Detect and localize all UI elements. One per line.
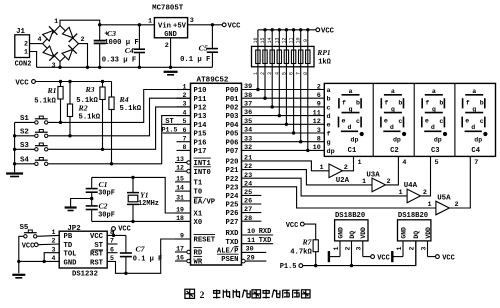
svg-text:S5: S5 — [20, 224, 29, 232]
svg-text:VCC: VCC — [286, 222, 299, 230]
svg-text:31: 31 — [176, 194, 184, 201]
svg-text:X0: X0 — [194, 219, 203, 227]
chip right port labels P00-P07 — [226, 87, 240, 156]
svg-text:RP1: RP1 — [316, 48, 330, 57]
wire bridge diamond — [37, 18, 84, 70]
svg-text:9: 9 — [303, 39, 309, 42]
svg-text:b: b — [356, 99, 360, 106]
resistor R1 — [34, 82, 63, 123]
resistor network RP1 — [252, 46, 332, 66]
svg-text:c: c — [480, 118, 484, 125]
svg-text:CON2: CON2 — [15, 61, 32, 69]
svg-text:P27: P27 — [226, 219, 239, 227]
svg-text:4: 4 — [183, 109, 187, 116]
wire DS1232 RST to AT89C52 RESET — [107, 239, 190, 275]
wire S2 to P11 — [48, 98, 190, 137]
wire net P1.5 rail — [303, 241, 416, 267]
svg-text:P23: P23 — [226, 184, 239, 192]
svg-text:2: 2 — [52, 238, 56, 245]
capacitor C7 — [120, 235, 162, 273]
resistor R3 — [76, 82, 105, 150]
svg-text:11: 11 — [247, 237, 255, 245]
ground (crystal) — [65, 208, 77, 211]
diode D4 (bottom-right) — [61, 45, 77, 61]
wire VCC to TD — [38, 243, 59, 246]
svg-text:TOL: TOL — [64, 251, 77, 259]
chip lower-left pin stubs — [175, 156, 191, 263]
svg-text:28: 28 — [244, 215, 252, 223]
regulator U6 MC7805T — [148, 5, 194, 50]
svg-text:13: 13 — [274, 37, 280, 43]
svg-text:1: 1 — [253, 72, 259, 75]
svg-text:C3: C3 — [431, 147, 440, 155]
svg-text:16: 16 — [176, 254, 184, 261]
svg-text:DQ: DQ — [413, 231, 420, 239]
svg-text:RST: RST — [90, 259, 104, 267]
svg-text:3: 3 — [356, 246, 363, 250]
VCC terminal (DS1232) — [112, 226, 131, 234]
chip right control labels — [217, 159, 239, 265]
svg-text:U5A: U5A — [437, 195, 451, 203]
svg-text:4.7kΩ: 4.7kΩ — [290, 248, 312, 256]
svg-text:VCC: VCC — [377, 254, 390, 262]
switch S3 — [20, 142, 48, 151]
display segment pin labels a-dp — [327, 87, 335, 156]
svg-text:11: 11 — [313, 109, 321, 117]
svg-text:X1: X1 — [194, 211, 203, 219]
svg-text:0.1 μ F: 0.1 μ F — [133, 255, 162, 263]
svg-text:9: 9 — [317, 101, 321, 109]
svg-text:P16: P16 — [194, 139, 207, 147]
svg-text:C2: C2 — [390, 147, 399, 155]
svg-text:P13: P13 — [194, 113, 207, 121]
capacitor C2 — [86, 199, 115, 222]
pin 11 TXD stub — [242, 237, 274, 245]
display box (C1-C4) — [324, 83, 495, 156]
svg-text:0.1 μ F: 0.1 μ F — [180, 56, 210, 64]
watchdog JP2 DS1232 — [52, 225, 114, 279]
pin 10 RXD stub — [242, 228, 274, 236]
svg-text:c: c — [398, 118, 402, 125]
switch S1 — [20, 115, 48, 124]
svg-text:12: 12 — [281, 37, 287, 43]
VCC terminal (R7) — [286, 222, 305, 230]
svg-text:1: 1 — [24, 49, 28, 56]
svg-text:C1: C1 — [98, 180, 107, 189]
svg-text:2: 2 — [317, 83, 321, 91]
svg-text:GND: GND — [337, 227, 344, 239]
wire S1 to P10 — [48, 90, 190, 125]
svg-text:15: 15 — [176, 175, 184, 182]
svg-text:30: 30 — [246, 246, 254, 254]
svg-text:1: 1 — [396, 246, 403, 250]
svg-text:3: 3 — [51, 62, 55, 70]
svg-text:d: d — [471, 124, 475, 131]
svg-text:c: c — [439, 118, 443, 125]
svg-text:RXD: RXD — [226, 230, 240, 238]
svg-text:C2: C2 — [98, 201, 107, 210]
svg-text:30pF: 30pF — [98, 211, 115, 219]
svg-text:10: 10 — [247, 228, 255, 236]
svg-text:Vin: Vin — [158, 22, 171, 30]
svg-text:f: f — [384, 99, 388, 106]
svg-text:b: b — [327, 96, 331, 104]
svg-text:d: d — [327, 113, 331, 121]
svg-text:c: c — [327, 104, 331, 112]
svg-text:DS18B20: DS18B20 — [335, 212, 365, 220]
svg-text:2: 2 — [344, 246, 351, 250]
svg-text:6: 6 — [289, 72, 295, 75]
svg-text:TD: TD — [64, 242, 73, 250]
svg-text:U2A: U2A — [336, 177, 350, 185]
svg-text:2: 2 — [165, 42, 169, 50]
svg-text:8: 8 — [183, 144, 187, 151]
svg-text:VCC: VCC — [118, 226, 131, 234]
svg-text:VDD: VDD — [425, 227, 432, 239]
svg-text:2: 2 — [260, 72, 266, 75]
svg-text:f: f — [342, 99, 346, 106]
pin 30 ALE stub — [242, 246, 267, 254]
svg-text:TXD: TXD — [226, 239, 240, 247]
svg-text:P12: P12 — [194, 105, 207, 113]
svg-text:dp: dp — [393, 137, 401, 144]
svg-text:13: 13 — [176, 156, 184, 163]
wire S5 to ground — [17, 236, 24, 273]
svg-text:2: 2 — [409, 246, 416, 250]
svg-text:4: 4 — [274, 72, 280, 75]
svg-text:C7: C7 — [135, 244, 145, 253]
svg-text:e: e — [465, 118, 469, 125]
svg-text:f: f — [327, 130, 331, 138]
wire P23 to U5A — [242, 187, 436, 208]
ground (keys) — [6, 174, 23, 177]
wire regulator GND pin to ground — [170, 38, 172, 68]
svg-text:3: 3 — [420, 246, 427, 250]
svg-text:b: b — [480, 99, 484, 106]
svg-text:15: 15 — [260, 37, 266, 43]
svg-text:EA/VP: EA/VP — [194, 199, 216, 207]
svg-text:1: 1 — [362, 178, 366, 186]
net label ST (pin5) — [163, 118, 177, 126]
7-segment digit C2 — [381, 88, 406, 155]
resistor R2 — [67, 82, 100, 136]
svg-text:f: f — [466, 99, 470, 106]
svg-text:1: 1 — [333, 246, 340, 250]
svg-text:R4: R4 — [119, 95, 129, 104]
svg-text:27: 27 — [244, 206, 252, 214]
svg-text:b: b — [439, 99, 443, 106]
VCC terminal (RP1) — [316, 28, 335, 36]
svg-text:4: 4 — [52, 255, 56, 262]
VCC terminal (keys pull-up rail) — [15, 80, 35, 88]
svg-text:1: 1 — [54, 18, 58, 26]
VCC terminal (DS1232 TD) — [22, 242, 38, 250]
wire crystal top to X1 — [92, 176, 191, 213]
svg-text:P02: P02 — [226, 105, 239, 113]
wire C1-C2 junction to ground — [71, 197, 94, 207]
svg-text:VCC: VCC — [321, 28, 335, 36]
pin 29 PSEN stub — [242, 254, 267, 263]
svg-text:5: 5 — [281, 72, 287, 75]
buffer U4A — [398, 182, 426, 203]
svg-text:T0: T0 — [194, 189, 203, 197]
connector J1 — [15, 28, 32, 69]
svg-text:f: f — [425, 99, 429, 106]
svg-text:17: 17 — [176, 245, 184, 252]
svg-text:GND: GND — [400, 227, 407, 239]
chip left control labels — [194, 158, 216, 267]
svg-text:14: 14 — [267, 37, 273, 43]
wire U3A output to C2 — [385, 165, 398, 185]
crystal Y1 — [127, 177, 159, 221]
svg-text:a: a — [327, 87, 331, 95]
svg-text:T1: T1 — [194, 180, 203, 188]
temperature sensor U8 DS18B20 #2 — [392, 212, 435, 265]
svg-text:P01: P01 — [226, 96, 240, 104]
svg-text:J1: J1 — [16, 28, 25, 36]
svg-text:6: 6 — [183, 127, 187, 134]
wire P20 to U2A — [242, 161, 330, 171]
VCC terminal (DS18B20 #1) — [371, 254, 390, 262]
svg-text:ST: ST — [165, 118, 173, 126]
wire key ground rail — [13, 122, 35, 172]
svg-text:C4: C4 — [125, 46, 134, 55]
svg-text:12MHz: 12MHz — [138, 200, 159, 208]
svg-text:19: 19 — [176, 206, 184, 213]
svg-text:P00: P00 — [226, 87, 239, 95]
resistor R7 — [290, 224, 318, 266]
svg-text:d: d — [431, 124, 435, 131]
svg-text:C5: C5 — [199, 44, 208, 53]
svg-text:11: 11 — [289, 37, 295, 43]
buffer U5A — [427, 195, 458, 215]
temperature sensor U7 DS18B20 #1 — [329, 212, 371, 265]
svg-text:P03: P03 — [226, 113, 239, 121]
svg-text:8: 8 — [303, 72, 309, 75]
wire U5A output to C4 — [449, 165, 470, 208]
svg-text:2: 2 — [183, 92, 187, 99]
svg-text:3: 3 — [190, 17, 194, 25]
capacitor C4 — [102, 25, 145, 68]
svg-text:P24: P24 — [226, 193, 240, 201]
svg-text:8: 8 — [317, 136, 321, 144]
svg-text:P05: P05 — [226, 131, 239, 139]
svg-text:3: 3 — [52, 246, 56, 253]
display pin numbers — [313, 83, 321, 152]
svg-text:1: 1 — [183, 83, 187, 90]
wire S4 to P13 — [48, 116, 190, 166]
pin stub RST6 — [107, 252, 117, 254]
chip pins 21-28 stubs — [242, 155, 262, 223]
chip pin numbers 39-32 — [244, 83, 252, 152]
svg-text:P04: P04 — [226, 122, 240, 130]
svg-text:VCC: VCC — [90, 233, 104, 241]
svg-text:VCC: VCC — [15, 80, 29, 88]
diode D1 (top-left) — [42, 26, 58, 42]
svg-text:1: 1 — [427, 201, 431, 209]
svg-text:1: 1 — [148, 18, 152, 26]
svg-text:GND: GND — [64, 259, 78, 267]
svg-text:3: 3 — [267, 72, 273, 75]
svg-text:MC7805T: MC7805T — [152, 5, 184, 13]
svg-text:R3: R3 — [84, 85, 94, 94]
svg-text:14: 14 — [176, 185, 184, 192]
VCC terminal (DS18B20 #2) — [436, 254, 455, 262]
capacitor C5 — [180, 25, 218, 68]
svg-text:2: 2 — [24, 41, 28, 48]
svg-text:1: 1 — [52, 229, 56, 236]
svg-text:30pF: 30pF — [98, 190, 115, 198]
switch S2 — [20, 129, 48, 138]
switch S5 — [20, 224, 37, 238]
net label P1.5 (pin6) — [162, 127, 178, 134]
svg-text:3: 3 — [183, 101, 187, 108]
svg-text:P20: P20 — [226, 159, 239, 167]
pin stub ST — [107, 243, 117, 245]
switch S4 — [20, 157, 48, 166]
svg-text:7: 7 — [183, 136, 187, 143]
caption: Figure 2 MCU peripheral circuit schematic — [185, 289, 310, 301]
svg-text:5: 5 — [435, 159, 439, 167]
wire J1 pin2 to bridge node 4 — [30, 43, 43, 45]
wire DC rail to Vin — [98, 23, 154, 26]
svg-text:P15: P15 — [194, 131, 207, 139]
wire bridge node1 to rectifier output rail — [60, 20, 100, 25]
svg-text:DQ: DQ — [349, 231, 356, 239]
wire bridge node3 to bottom rail — [59, 62, 61, 68]
svg-text:5.1kΩ: 5.1kΩ — [34, 98, 56, 106]
svg-text:dp: dp — [327, 148, 335, 156]
svg-text:7: 7 — [474, 159, 478, 167]
svg-text:29: 29 — [247, 254, 255, 262]
buffer U2A — [319, 164, 349, 185]
svg-text:d: d — [348, 124, 352, 131]
svg-text:P11: P11 — [194, 96, 208, 104]
svg-text:P07: P07 — [226, 148, 239, 156]
svg-text:5: 5 — [183, 118, 187, 125]
svg-text:1: 1 — [398, 189, 402, 197]
diode D3 (bottom-left) — [42, 45, 58, 61]
svg-text:18: 18 — [176, 215, 184, 222]
chip pins 1-8 stubs — [177, 83, 191, 151]
svg-text:4: 4 — [37, 36, 41, 44]
wire P21 to U3A — [242, 170, 373, 185]
wire S3 to P12 — [48, 107, 190, 151]
wire J1 pin1 to ground rail — [30, 52, 37, 68]
svg-text:PB: PB — [64, 233, 73, 241]
diode D2 (top-right) — [62, 26, 78, 42]
7-segment digit C3 — [422, 88, 447, 155]
chip left port labels P10-P17 — [194, 87, 208, 156]
svg-text:e: e — [384, 118, 388, 125]
svg-text:25: 25 — [244, 189, 252, 197]
svg-text:c: c — [356, 118, 360, 125]
wire VCC pull-up rail — [35, 80, 111, 83]
svg-text:P1.5: P1.5 — [280, 263, 297, 271]
svg-text:Y1: Y1 — [140, 190, 149, 199]
display common pin stubs — [354, 156, 479, 167]
svg-text:TXD: TXD — [259, 237, 272, 245]
svg-text:WR: WR — [194, 259, 203, 267]
capacitor C1 — [86, 177, 115, 198]
svg-text:C3: C3 — [107, 29, 116, 38]
svg-text:ST: ST — [94, 242, 103, 250]
svg-text:VCC: VCC — [442, 254, 455, 262]
svg-text:PSEN: PSEN — [221, 256, 238, 264]
svg-text:+5V: +5V — [173, 22, 187, 30]
VCC terminal (regulator output) — [222, 23, 241, 31]
svg-text:DS1232: DS1232 — [72, 270, 98, 278]
svg-text:P22: P22 — [226, 176, 239, 184]
svg-text:5.1kΩ: 5.1kΩ — [120, 105, 142, 113]
RP1 pin numbers (rotated) — [253, 37, 309, 75]
wire bridge node2 down to bottom rail — [79, 44, 88, 68]
wire bottom ground rail — [37, 66, 213, 69]
svg-text:e: e — [425, 118, 429, 125]
svg-text:C4: C4 — [471, 147, 480, 155]
svg-text:P06: P06 — [226, 139, 239, 147]
svg-text:5.1kΩ: 5.1kΩ — [76, 97, 98, 105]
svg-text:DS18B20: DS18B20 — [398, 212, 428, 220]
wire RP1 VCC bus — [258, 28, 316, 31]
svg-text:R7: R7 — [301, 237, 312, 246]
svg-text:b: b — [398, 99, 402, 106]
svg-text:4: 4 — [402, 159, 406, 167]
wire crystal bottom to X0 — [92, 220, 191, 223]
svg-text:10: 10 — [296, 37, 302, 43]
svg-text:5.1kΩ: 5.1kΩ — [79, 114, 101, 122]
resistor R4 — [109, 82, 142, 164]
capacitor C3 — [94, 25, 139, 68]
svg-text:RST: RST — [90, 251, 104, 259]
svg-text:7: 7 — [296, 72, 302, 75]
svg-text:12: 12 — [313, 118, 321, 126]
svg-text:U3A: U3A — [366, 172, 380, 180]
svg-text:P17: P17 — [194, 148, 207, 156]
svg-text:d: d — [390, 124, 394, 131]
svg-text:P21: P21 — [226, 167, 240, 175]
svg-text:9: 9 — [180, 232, 184, 239]
buffer U3A — [362, 172, 391, 192]
wire U4A output to C3 — [421, 165, 431, 196]
svg-text:dp: dp — [351, 137, 359, 144]
wire RP1 pull-up column wires — [256, 30, 309, 152]
svg-text:12: 12 — [176, 165, 184, 172]
wire TOL and GND pins to ground rail — [19, 253, 59, 263]
7-segment digit C1 — [339, 88, 364, 155]
svg-text:2: 2 — [200, 290, 205, 301]
wire regulator output to VCC — [188, 23, 223, 26]
wire S5 to DS1232 PB — [37, 234, 59, 237]
7-segment digit C4 — [462, 88, 487, 155]
wire segment data rows P00-P07 to display — [242, 90, 325, 151]
ground (S5) — [12, 275, 25, 278]
svg-text:1: 1 — [319, 164, 323, 172]
svg-text:P10: P10 — [194, 87, 207, 95]
svg-text:26: 26 — [244, 198, 252, 206]
svg-text:INT0: INT0 — [194, 169, 211, 177]
wire P22 to U4A — [242, 178, 408, 196]
svg-text:VDD: VDD — [360, 227, 367, 239]
wire DS1232 VCC pin to C7 — [107, 230, 126, 237]
MCU U1 AT89C52 — [191, 76, 242, 265]
svg-text:U4A: U4A — [404, 182, 418, 190]
svg-text:R1: R1 — [46, 86, 56, 95]
svg-text:10: 10 — [313, 144, 321, 152]
svg-text:3: 3 — [317, 127, 321, 135]
svg-text:RESET: RESET — [194, 237, 216, 245]
svg-text:e: e — [327, 122, 331, 130]
